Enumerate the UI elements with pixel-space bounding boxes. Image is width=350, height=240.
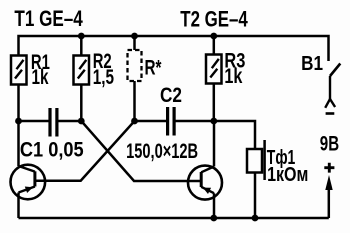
wire R3 top lead bbox=[213, 36, 216, 55]
telephone Tf1 bbox=[247, 140, 308, 186]
wire bottom rail (plus bus) bbox=[19, 217, 329, 220]
node telephone bottom bbox=[252, 215, 259, 222]
wire R1 bottom lead bbox=[17, 85, 20, 122]
battery minus terminal bbox=[326, 112, 335, 115]
node R3 top bbox=[210, 33, 217, 40]
wire T1 collector vertical bbox=[17, 121, 20, 166]
wire R2 bottom lead bbox=[80, 85, 83, 122]
switch B1 bbox=[301, 53, 340, 108]
svg-text:T1 GE–4: T1 GE–4 bbox=[14, 6, 83, 31]
resistor R* (dashed, selected on test) bbox=[128, 50, 163, 81]
wire node A row: T1 collector to C1 bbox=[19, 120, 49, 123]
wire C1 right plate to node B bbox=[58, 120, 81, 123]
svg-text:T2 GE–4: T2 GE–4 bbox=[180, 6, 248, 31]
svg-text:C2: C2 bbox=[160, 84, 182, 107]
svg-text:150,0×12В: 150,0×12В bbox=[126, 140, 198, 163]
wire cross-coupling node C to T1 base bbox=[35, 121, 135, 181]
wire node C to C2 left plate bbox=[135, 120, 167, 123]
node C C2-R* bbox=[131, 118, 138, 125]
wire T1 emitter vertical bbox=[17, 193, 20, 219]
capacitor C1 bbox=[20, 108, 84, 162]
node R2 top bbox=[78, 33, 85, 40]
node B C1-R2 bbox=[78, 118, 85, 125]
transistor T2 bbox=[188, 166, 222, 200]
resistor R2 bbox=[74, 50, 115, 89]
capacitor C2 bbox=[126, 84, 198, 163]
node A T1 collector bbox=[15, 118, 22, 125]
battery plus terminal bbox=[324, 163, 334, 190]
transistor T1 bbox=[11, 165, 46, 200]
wire top rail (minus bus) bbox=[19, 36, 329, 61]
wire R3 bottom lead bbox=[213, 84, 216, 122]
svg-text:1k: 1k bbox=[224, 65, 242, 88]
svg-text:1кОм: 1кОм bbox=[267, 164, 308, 186]
node dots bbox=[15, 33, 258, 222]
svg-text:1,5: 1,5 bbox=[93, 66, 115, 89]
wire R* top lead bbox=[133, 36, 136, 50]
node T2 emitter bottom bbox=[210, 215, 217, 222]
svg-text:R*: R* bbox=[145, 57, 163, 80]
svg-text:B1: B1 bbox=[301, 53, 323, 75]
wire C2 right plate to telephone, corner down bbox=[176, 121, 256, 149]
wire T2 collector vertical bbox=[213, 121, 216, 167]
wire R2 top lead bbox=[80, 36, 83, 56]
wire T2 emitter vertical bbox=[213, 193, 216, 218]
node R* top bbox=[131, 33, 138, 40]
wire telephone bottom lead bbox=[254, 173, 257, 219]
wire cross-coupling node B to T2 base bbox=[81, 121, 201, 181]
wire R* bottom lead bbox=[133, 81, 136, 121]
resistor R1 bbox=[11, 51, 50, 89]
node D T2 collector bbox=[210, 118, 217, 125]
svg-text:1k: 1k bbox=[32, 66, 49, 89]
wire battery plus lead bbox=[328, 188, 331, 218]
svg-text:9В: 9В bbox=[320, 132, 339, 155]
svg-text:C1 0,05: C1 0,05 bbox=[20, 139, 84, 162]
resistor R3 bbox=[206, 50, 245, 89]
